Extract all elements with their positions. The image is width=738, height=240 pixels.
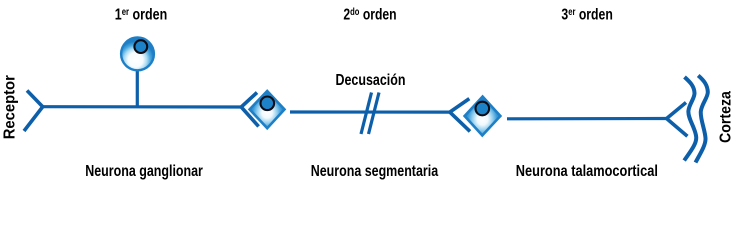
svg-text:Receptor: Receptor xyxy=(1,75,19,139)
axon segment 2 (to decussation and synapse 2) xyxy=(290,110,450,113)
svg-text:Decusación: Decusación xyxy=(336,71,406,89)
terminal fork at cortex xyxy=(667,103,688,137)
dendrite stem of ganglionar neuron xyxy=(136,68,139,107)
nucleus of 3rd-order neuron xyxy=(476,102,490,116)
svg-text:Neurona ganglionar: Neurona ganglionar xyxy=(85,162,203,180)
axon segment 1 (receptor to first synapse) xyxy=(42,105,242,109)
soma of 3rd-order neuron (diamond) xyxy=(465,97,501,136)
presynaptic fork of synapse 1 xyxy=(241,93,258,127)
cortex wavy line 1 xyxy=(684,77,696,161)
presynaptic fork of synapse 2 xyxy=(450,99,470,132)
cortex wavy line 2 xyxy=(696,76,708,163)
svg-text:Neurona segmentaria: Neurona segmentaria xyxy=(311,162,439,180)
nucleus of 1st-order neuron xyxy=(134,40,147,53)
svg-text:1er orden: 1er orden xyxy=(115,6,167,24)
receptor ending (left Y fork) xyxy=(24,91,43,132)
soma of 2nd-order neuron (diamond) xyxy=(250,91,285,128)
svg-text:3er orden: 3er orden xyxy=(561,6,612,24)
svg-text:Corteza: Corteza xyxy=(717,91,735,143)
nucleus of 2nd-order neuron xyxy=(261,97,275,111)
decussation slash 2 xyxy=(369,93,380,135)
decussation slash 1 xyxy=(361,93,372,135)
svg-text:Neurona talamocortical: Neurona talamocortical xyxy=(516,163,658,181)
axon segment 3 (to cortex) xyxy=(507,117,667,121)
soma of 1st-order neuron (cell body circle) xyxy=(121,38,154,71)
svg-text:2do orden: 2do orden xyxy=(343,6,396,24)
